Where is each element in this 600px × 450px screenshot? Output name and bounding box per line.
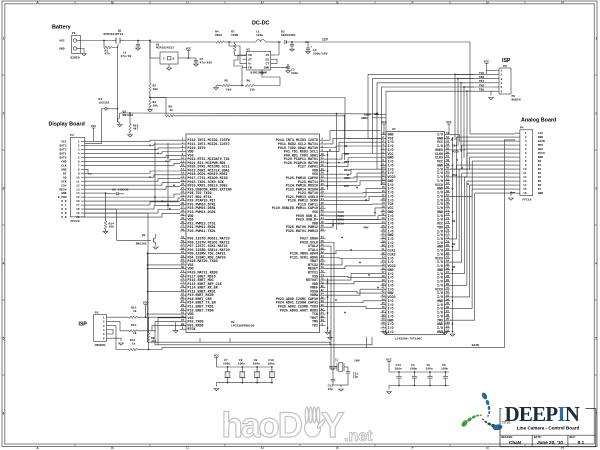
svg-text:65: 65 [181, 259, 185, 262]
svg-text:31: 31 [181, 194, 185, 197]
svg-text:16M: 16M [354, 360, 360, 363]
svg-text:92: 92 [321, 308, 325, 311]
svg-text:D0: D0 [538, 160, 542, 163]
svg-text:14: 14 [321, 160, 325, 163]
svg-text:100: 100 [445, 322, 450, 325]
svg-text:2k9: 2k9 [226, 88, 232, 92]
svg-text:haoD: haoD [222, 406, 302, 445]
svg-text:2: 2 [595, 112, 597, 116]
IC U4 right pin labels and stubs [435, 132, 450, 335]
IC U3 right pin stubs [320, 138, 326, 326]
svg-text:91: 91 [181, 308, 185, 311]
title block texts [502, 421, 585, 445]
svg-text:FFC16: FFC16 [522, 198, 531, 201]
svg-text:54: 54 [321, 236, 325, 239]
svg-text:CS: CS [266, 54, 270, 57]
converter U2 [243, 49, 276, 75]
wire Q1 output node [124, 40, 151, 42]
svg-text:57: 57 [181, 244, 185, 247]
svg-text:SDA0: SDA0 [338, 219, 345, 222]
svg-text:24: 24 [321, 179, 325, 182]
svg-text:88: 88 [446, 275, 450, 278]
svg-text:39: 39 [181, 210, 185, 213]
net labels right channel [452, 145, 459, 270]
svg-text:GND: GND [538, 192, 543, 195]
resistor R4 [215, 31, 232, 44]
svg-text:69: 69 [181, 266, 185, 269]
svg-text:75: 75 [181, 278, 185, 281]
svg-text:RTCK: RTCK [188, 328, 196, 332]
capacitor C12 [328, 368, 337, 391]
svg-text:33: 33 [181, 198, 185, 201]
svg-text:33k: 33k [250, 88, 256, 92]
svg-text:56: 56 [321, 240, 325, 243]
svg-text:28: 28 [381, 236, 385, 239]
svg-text:71: 71 [181, 270, 185, 273]
svg-text:59: 59 [181, 247, 185, 250]
svg-text:13: 13 [76, 188, 80, 191]
svg-text:52: 52 [446, 329, 450, 332]
svg-text:4: 4 [595, 262, 597, 266]
power VCC above U4 [381, 121, 387, 135]
svg-text:47n/10: 47n/10 [121, 54, 132, 58]
svg-text:A0: A0 [63, 176, 67, 179]
svg-text:GND: GND [538, 136, 543, 139]
svg-text:CD: CD [248, 54, 252, 57]
svg-text:94: 94 [446, 298, 450, 301]
svg-text:61: 61 [446, 171, 450, 174]
svg-text:34: 34 [381, 260, 385, 263]
svg-text:DESIGN:: DESIGN: [502, 436, 514, 439]
svg-text:35: 35 [181, 202, 185, 205]
capacitor across diode [290, 42, 295, 51]
ground at crystal [333, 385, 348, 391]
svg-text:98: 98 [446, 314, 450, 317]
svg-text:RN1302: RN1302 [136, 243, 147, 246]
wire U4 ground bus right [450, 137, 455, 336]
svg-text:36: 36 [321, 202, 325, 205]
svg-text:SD1003M3: SD1003M3 [281, 34, 296, 37]
svg-text:77: 77 [446, 233, 450, 236]
svg-text:GND: GND [61, 192, 66, 195]
connector P2 [58, 134, 85, 223]
svg-text:1k: 1k [132, 342, 136, 346]
svg-text:45: 45 [181, 221, 185, 224]
svg-text:62: 62 [446, 174, 450, 177]
ground at P5 [111, 330, 124, 345]
svg-text:0.1: 0.1 [578, 440, 585, 445]
svg-text:62: 62 [321, 251, 325, 254]
svg-text:46: 46 [381, 306, 385, 309]
power VCC at C13 rail [386, 358, 392, 372]
svg-text:150R: 150R [231, 34, 238, 37]
svg-text:20: 20 [76, 216, 80, 219]
svg-text:FFC20: FFC20 [71, 220, 80, 223]
svg-text:33: 33 [381, 256, 385, 259]
svg-text:P20.PWM11.TXD1: P20.PWM11.TXD1 [188, 230, 216, 234]
svg-text:SCL0: SCL0 [338, 222, 345, 225]
svg-text:95: 95 [446, 302, 450, 305]
resistor R5 [214, 80, 244, 92]
svg-text:MCP1824S33: MCP1824S33 [156, 47, 174, 50]
svg-text:FB: FB [248, 67, 252, 70]
svg-text:20: 20 [321, 172, 325, 175]
wire battery positive rail [81, 40, 113, 42]
svg-text:RN1302: RN1302 [123, 114, 134, 117]
svg-text:80: 80 [446, 244, 450, 247]
svg-text:56: 56 [446, 151, 450, 154]
wires P2 lower nets down [85, 209, 148, 342]
svg-text:GAIN: GAIN [472, 344, 479, 347]
svg-text:D4: D4 [538, 176, 542, 179]
svg-text:85: 85 [181, 296, 185, 299]
svg-text:100n: 100n [253, 363, 260, 366]
svg-text:64: 64 [446, 182, 450, 185]
svg-text:44: 44 [381, 298, 385, 301]
svg-text:P6: P6 [503, 65, 507, 68]
svg-text:76: 76 [321, 278, 325, 281]
svg-text:TITLE:: TITLE: [502, 421, 513, 424]
svg-text:12: 12 [523, 176, 527, 179]
svg-text:D1: D1 [538, 164, 542, 167]
wire GND net top [364, 113, 386, 116]
wire left power bus at U3 [147, 252, 180, 342]
section label Analog Board [521, 118, 556, 124]
svg-text:70: 70 [446, 205, 450, 208]
resistor R12 [111, 307, 187, 319]
svg-text:84: 84 [446, 260, 450, 263]
svg-text:52: 52 [446, 136, 450, 139]
svg-text:100u/16V: 100u/16V [313, 51, 328, 55]
logo swirl [460, 392, 503, 431]
ground at P1 [81, 49, 87, 56]
IC U4 left pin labels and stubs [381, 132, 396, 335]
svg-text:SH#: SH# [538, 148, 543, 151]
svg-text:100n: 100n [395, 367, 402, 370]
svg-text:11: 11 [381, 171, 385, 174]
svg-text:94: 94 [321, 312, 325, 315]
wires xtal from U3 [326, 242, 338, 369]
svg-text:DAT0: DAT0 [60, 156, 67, 159]
svg-text:16: 16 [381, 190, 385, 193]
resistor R2 [149, 83, 158, 93]
svg-text:98: 98 [321, 319, 325, 322]
svg-text:82: 82 [321, 289, 325, 292]
svg-text:ISP: ISP [502, 58, 511, 64]
svg-text:B2BEH: B2BEH [71, 57, 80, 60]
ground below U3 left corner [173, 322, 178, 333]
svg-text:330u: 330u [291, 72, 298, 75]
svg-text:CS#: CS# [344, 161, 349, 164]
svg-text:23: 23 [181, 179, 185, 182]
svg-text:18: 18 [76, 208, 80, 211]
svg-text:43: 43 [181, 217, 185, 220]
svg-text:ChaN: ChaN [509, 440, 522, 445]
IC U3 LPC2368 body [186, 134, 320, 333]
svg-text:86: 86 [321, 296, 325, 299]
svg-text:60: 60 [321, 247, 325, 250]
wires right bus verticals [337, 74, 468, 230]
svg-text:P2: P2 [70, 134, 74, 137]
svg-text:11: 11 [523, 172, 527, 175]
svg-text:DEEPIN: DEEPIN [505, 402, 580, 426]
svg-text:37: 37 [181, 206, 185, 209]
svg-text:100n: 100n [410, 367, 417, 370]
svg-text:93: 93 [446, 294, 450, 297]
svg-text:15: 15 [523, 188, 527, 191]
svg-text:73: 73 [181, 274, 185, 277]
svg-text:41: 41 [381, 287, 385, 290]
svg-text:43: 43 [381, 294, 385, 297]
svg-text:65: 65 [446, 186, 450, 189]
power VCC at C7 rail [214, 354, 220, 367]
svg-text:35: 35 [381, 263, 385, 266]
ground stub below P4 [509, 191, 515, 200]
svg-text:89: 89 [446, 279, 450, 282]
svg-text:Battery: Battery [52, 25, 71, 31]
capacitors C13 C14 C15 C16 [389, 364, 449, 386]
svg-text:93: 93 [181, 312, 185, 315]
wires U4 to P4 channel [450, 134, 515, 320]
svg-text:81: 81 [181, 289, 185, 292]
svg-text:PCCO: PCCO [452, 151, 459, 154]
wire 12V rail [306, 38, 470, 43]
section label Display Board [49, 122, 85, 128]
svg-text:67: 67 [181, 262, 185, 265]
wires U3 bottom to caps [200, 338, 230, 342]
svg-text:37: 37 [381, 271, 385, 274]
wires left channel verticals [154, 142, 169, 211]
resistor R3 [148, 93, 159, 112]
svg-text:GND: GND [61, 168, 66, 171]
title block box [500, 409, 596, 447]
svg-text:10k: 10k [153, 103, 159, 107]
IC U3 right pin labels [272, 139, 318, 328]
power VCC at ISP [484, 60, 495, 70]
power VCC at U1 output [186, 47, 192, 59]
svg-text:95: 95 [181, 315, 185, 318]
svg-text:100u: 100u [256, 34, 263, 37]
svg-text:DI: DI [63, 172, 67, 175]
wire 12V drop to analog [470, 42, 515, 134]
svg-text:B6BCH: B6BCH [512, 99, 521, 102]
svg-text:97: 97 [181, 319, 185, 322]
svg-text:78: 78 [321, 281, 325, 284]
svg-text:1: 1 [501, 69, 503, 72]
svg-text:VCC: VCC [186, 47, 192, 50]
svg-text:63: 63 [446, 178, 450, 181]
svg-text:CT: CT [266, 63, 270, 66]
svg-text:GND#: GND# [364, 113, 371, 116]
wire Q2 collector net [130, 113, 378, 115]
svg-text:100n: 100n [238, 363, 245, 366]
ground at C13 rail [387, 386, 392, 394]
resistor R6 [242, 68, 280, 92]
svg-text:LC4256V-75T100C: LC4256V-75T100C [395, 338, 422, 341]
svg-text:22p: 22p [353, 376, 359, 379]
svg-text:74: 74 [446, 221, 450, 224]
svg-text:F: F [411, 0, 413, 4]
svg-text:G: G [486, 0, 489, 4]
svg-text:32: 32 [381, 252, 385, 255]
svg-text:CLK: CLK [61, 164, 66, 167]
svg-text:1: 1 [595, 37, 597, 41]
svg-text:30: 30 [381, 244, 385, 247]
svg-text:55: 55 [181, 240, 185, 243]
capacitor C3 [286, 64, 299, 75]
svg-text:VCC: VCC [214, 354, 220, 357]
svg-text:96: 96 [321, 315, 325, 318]
svg-text:CMD: CMD [61, 160, 66, 163]
svg-text:RES#: RES# [60, 188, 67, 191]
svg-text:27: 27 [381, 233, 385, 236]
svg-text:49: 49 [381, 318, 385, 321]
svg-text:R5: R5 [225, 80, 229, 83]
svg-text:46: 46 [321, 221, 325, 224]
svg-text:REV:: REV: [570, 436, 577, 439]
svg-text:40: 40 [321, 210, 325, 213]
svg-text:VCC: VCC [61, 141, 66, 144]
svg-text:19: 19 [181, 172, 185, 175]
svg-text:20: 20 [381, 205, 385, 208]
label GND top of U4 [361, 117, 386, 120]
svg-text:47k: 47k [105, 51, 111, 55]
svg-text:4: 4 [2, 262, 4, 266]
svg-text:ISP: ISP [79, 321, 88, 327]
junction dots P2 channel [105, 145, 175, 210]
svg-text:51: 51 [446, 325, 450, 328]
wires U3 to U4 channel [325, 131, 380, 335]
svg-text:12: 12 [321, 157, 325, 160]
svg-text:100n: 100n [441, 367, 448, 370]
svg-text:100n: 100n [223, 363, 230, 366]
svg-text:I: I [163, 58, 165, 61]
svg-text:GND: GND [538, 156, 543, 159]
svg-text:P030: P030 [338, 211, 345, 214]
svg-text:13: 13 [381, 178, 385, 181]
svg-text:61: 61 [181, 251, 185, 254]
net labels left channel [344, 145, 351, 188]
connector P4 [515, 127, 545, 202]
svg-text:91: 91 [446, 287, 450, 290]
svg-text:GAIN: GAIN [538, 140, 545, 143]
svg-text:5: 5 [2, 337, 4, 341]
svg-text:16: 16 [76, 200, 80, 203]
svg-text:5: 5 [595, 337, 597, 341]
svg-text:70: 70 [321, 266, 325, 269]
svg-text:87: 87 [446, 271, 450, 274]
svg-text:53: 53 [181, 236, 185, 239]
svg-text:76: 76 [446, 229, 450, 232]
svg-text:SCK: SCK [61, 180, 66, 183]
svg-text:10k: 10k [109, 225, 115, 229]
resistor R1 [104, 41, 118, 56]
svg-text:D3: D3 [538, 172, 542, 175]
svg-text:K_R: K_R [61, 200, 66, 203]
ground at U2 [260, 70, 265, 74]
svg-text:40: 40 [381, 283, 385, 286]
svg-text:CM6BCH: CM6BCH [95, 344, 106, 347]
svg-text:P029: P029 [338, 215, 345, 218]
wire U2 CD [234, 55, 243, 68]
capacitor C4 [306, 42, 328, 55]
resistor R13 [111, 321, 187, 335]
capacitor C1 [121, 41, 141, 58]
svg-text:25: 25 [181, 183, 185, 186]
svg-text:CS#: CS# [61, 184, 66, 187]
power VCC at R12 [143, 301, 149, 317]
svg-text:P4: P4 [520, 127, 524, 130]
svg-text:25: 25 [381, 225, 385, 228]
svg-text:39: 39 [381, 279, 385, 282]
power VCC above P2 [91, 125, 97, 142]
svg-text:PM#: PM# [364, 226, 369, 229]
svg-text:P1: P1 [72, 32, 76, 35]
svg-text:19: 19 [381, 202, 385, 205]
resistor R10 [120, 112, 139, 137]
connector P1 [59, 32, 80, 59]
svg-text:D7: D7 [538, 188, 542, 191]
svg-text:47n/10V: 47n/10V [200, 60, 213, 64]
svg-text:Y: Y [321, 406, 344, 445]
svg-text:2: 2 [501, 74, 503, 77]
wires ISP P6 signals [474, 71, 495, 100]
svg-text:6: 6 [501, 90, 503, 93]
watermark haoDIY.net [222, 406, 374, 445]
svg-text:72: 72 [321, 270, 325, 273]
svg-text:12V: 12V [538, 132, 543, 135]
crystal Y1 [329, 359, 360, 372]
svg-text:28: 28 [321, 187, 325, 190]
svg-text:38: 38 [381, 275, 385, 278]
section label ISP top [502, 58, 511, 64]
wire DCDC input rail [150, 41, 216, 43]
svg-text:77: 77 [181, 281, 185, 284]
svg-text:K_B: K_B [61, 216, 66, 219]
svg-text:12: 12 [381, 174, 385, 177]
svg-text:10: 10 [381, 167, 385, 170]
svg-text:60: 60 [446, 167, 450, 170]
svg-text:72: 72 [446, 213, 450, 216]
svg-text:10k: 10k [153, 87, 159, 91]
svg-text:GND#: GND# [361, 117, 368, 120]
logo text DEEPIN [502, 402, 586, 426]
svg-text:Display Board: Display Board [49, 122, 85, 128]
svg-text:22: 22 [381, 213, 385, 216]
svg-text:21: 21 [381, 209, 385, 212]
svg-text:48: 48 [381, 314, 385, 317]
svg-text:47: 47 [181, 225, 185, 228]
svg-text:TDO: TDO [479, 89, 484, 92]
svg-text:26: 26 [381, 229, 385, 232]
wire gate pull line [117, 46, 119, 109]
svg-text:RES#: RES# [344, 169, 351, 172]
regulator U1 [150, 41, 189, 71]
power VCC above U4 right [446, 121, 452, 135]
resistor R14 [103, 217, 114, 233]
svg-text:36: 36 [381, 267, 385, 270]
svg-text:11: 11 [76, 180, 80, 183]
svg-text:58: 58 [321, 244, 325, 247]
wires P5 to bottom bus [149, 331, 367, 350]
IC U3 left pin labels [188, 139, 232, 332]
svg-text:NTR4101PT1G: NTR4101PT1G [104, 33, 124, 36]
svg-text:79: 79 [446, 240, 450, 243]
svg-text:16: 16 [321, 164, 325, 167]
svg-text:68: 68 [446, 198, 450, 201]
svg-text:26: 26 [321, 183, 325, 186]
svg-text:79: 79 [181, 285, 185, 288]
